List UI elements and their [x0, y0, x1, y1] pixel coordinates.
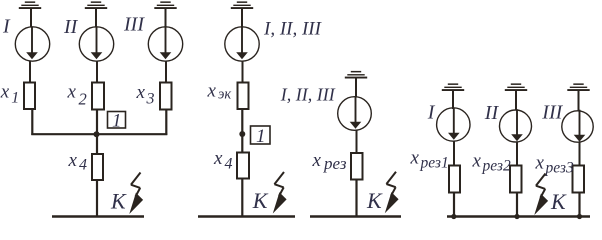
bottom bus of figure 3	[310, 215, 401, 218]
wire S1 stem to source I	[30, 9, 32, 27]
system ground symbol S8	[567, 83, 589, 91]
wire x4b to bottom bus	[241, 179, 243, 217]
source circle G-eq	[225, 27, 259, 61]
junction dot branch II	[514, 214, 519, 219]
wire G-I to resistor x1	[29, 61, 31, 83]
source circle G4-III	[562, 111, 593, 142]
source circle G-res	[338, 97, 372, 131]
svg-text:x: x	[535, 153, 545, 174]
svg-text:2: 2	[79, 90, 87, 109]
svg-text:4: 4	[79, 157, 87, 174]
wire x3 to bus	[165, 110, 167, 136]
node 1 label box	[251, 126, 271, 144]
svg-text:1: 1	[11, 90, 19, 107]
wire S2 stem to source II	[95, 9, 97, 27]
svg-text:x: x	[68, 150, 78, 171]
wire G-res to resistor x_rez	[356, 131, 358, 154]
system ground symbol S1	[19, 1, 41, 9]
svg-text:x: x	[410, 148, 420, 169]
svg-text:рез2: рез2	[482, 158, 511, 175]
wire x_ek to node 1	[241, 109, 243, 153]
wire x4 to bottom bus	[96, 180, 98, 217]
wire x_rez to bottom bus	[355, 180, 357, 217]
svg-text:эк: эк	[218, 87, 231, 103]
resistor x_rez3	[573, 166, 585, 193]
short-circuit lightning K3	[385, 172, 399, 214]
svg-text:рез3: рез3	[545, 160, 574, 177]
svg-text:рез1: рез1	[420, 155, 449, 172]
svg-text:4: 4	[225, 156, 233, 173]
arrow of source G-eq	[236, 27, 248, 59]
wire G-eq to resistor x_ek	[242, 61, 244, 83]
wire G4-II to resistor x_rez2	[516, 142, 518, 166]
wire S5 stem to source	[355, 78, 357, 97]
svg-text:III: III	[541, 102, 563, 124]
short-circuit lightning K4	[534, 174, 548, 216]
wire x1 to bus	[31, 109, 33, 135]
system ground symbol S6	[442, 83, 464, 91]
short-circuit lightning K1	[129, 173, 143, 215]
arrow of source G-res	[350, 97, 362, 129]
arrow of source G4-II	[511, 109, 523, 141]
system ground symbol S3	[154, 1, 176, 9]
arrow of source G-I	[26, 27, 38, 59]
arrow of source G4-III	[574, 110, 586, 142]
arrow of source G-III	[160, 27, 172, 59]
resistor x1	[24, 83, 35, 110]
wire S7 stem to source II	[515, 91, 517, 111]
resistor x2	[92, 83, 104, 110]
system ground symbol S5	[345, 71, 367, 79]
bottom bus of figure 2	[198, 215, 295, 218]
svg-text:x: x	[213, 148, 223, 169]
source circle G-III	[148, 27, 182, 61]
wire x_rez1 to bus	[453, 193, 455, 217]
system ground symbol S7	[505, 83, 527, 91]
wire G4-I to resistor x_rez1	[453, 141, 455, 166]
svg-text:x: x	[67, 82, 77, 103]
resistor x_rez1	[449, 166, 460, 193]
wire x_rez2 to bus	[516, 193, 518, 217]
junction dot branch III	[577, 214, 582, 219]
svg-text:II: II	[63, 16, 79, 38]
wire G-II to resistor x2	[96, 61, 98, 83]
svg-text:III: III	[123, 14, 145, 36]
wire x2 to bus junction	[96, 110, 98, 136]
resistor x4b	[237, 153, 249, 179]
wire S8 stem to source III	[578, 91, 580, 112]
svg-text:I: I	[427, 102, 436, 124]
collector bus of figure 1	[31, 133, 167, 135]
svg-text:К: К	[252, 188, 269, 213]
svg-text:рез: рез	[323, 154, 347, 173]
bottom bus of figure 1	[52, 215, 144, 218]
junction dot branch I	[451, 214, 456, 219]
source circle G4-II	[500, 110, 532, 142]
resistor x_rez	[351, 153, 363, 180]
svg-text:x: x	[472, 151, 482, 172]
svg-text:1: 1	[256, 126, 266, 147]
svg-text:x: x	[0, 82, 10, 103]
wire G4-III to resistor x_rez3	[579, 142, 581, 166]
svg-text:x: x	[312, 150, 322, 171]
svg-text:К: К	[366, 188, 383, 213]
wire S6 stem to source I	[452, 91, 454, 109]
wire junction to resistor x4	[96, 134, 98, 155]
wire G-III to resistor x3	[165, 61, 167, 83]
wire S3 stem to source III	[165, 9, 167, 27]
system ground symbol S2	[85, 1, 107, 9]
svg-text:I, II, III: I, II, III	[280, 85, 336, 105]
svg-text:x: x	[207, 81, 217, 102]
svg-text:3: 3	[146, 91, 155, 108]
node 1 label box	[108, 112, 126, 129]
resistor x4	[92, 154, 103, 180]
wire x_rez3 to bus	[578, 193, 580, 217]
resistor x_rez2	[510, 166, 522, 193]
node 1 junction dot	[239, 131, 245, 137]
svg-text:I, II, III: I, II, III	[263, 19, 323, 40]
source circle G-II	[79, 27, 113, 61]
svg-text:II: II	[484, 102, 500, 124]
wire S4 stem to source	[241, 9, 243, 27]
source circle G4-I	[437, 108, 470, 141]
svg-text:1: 1	[112, 111, 122, 132]
bottom bus of figure 4	[447, 215, 590, 218]
svg-text:К: К	[550, 189, 567, 214]
resistor x3	[160, 83, 172, 110]
arrow of source G4-I	[448, 108, 460, 140]
short-circuit lightning K2	[273, 172, 287, 214]
svg-text:I: I	[2, 16, 11, 38]
source circle G-I	[15, 27, 49, 61]
svg-text:x: x	[136, 82, 146, 103]
system ground symbol S4	[231, 1, 253, 9]
resistor x_ek	[238, 83, 249, 110]
arrow of source G-II	[91, 27, 103, 59]
svg-text:К: К	[110, 189, 127, 214]
node 1 junction dot on bus	[94, 131, 100, 137]
